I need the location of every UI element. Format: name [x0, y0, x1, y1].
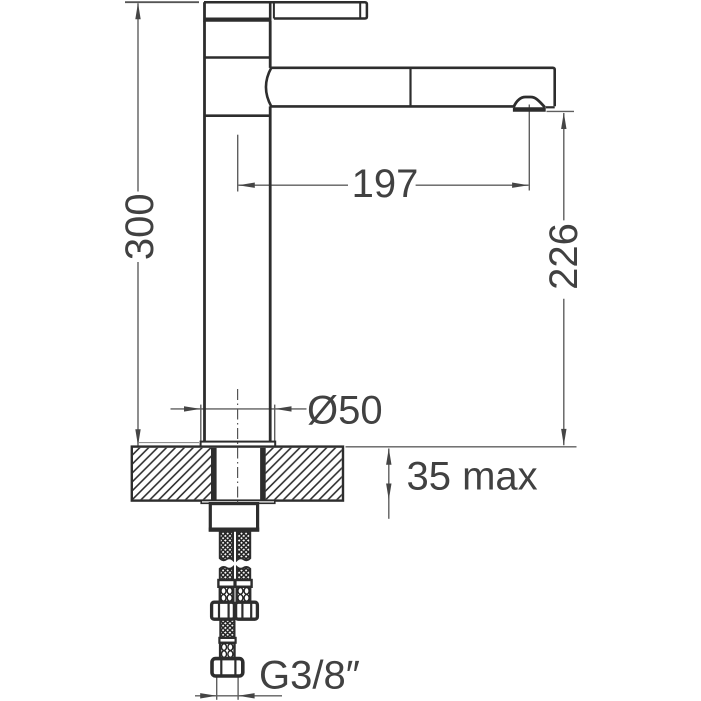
- ext line: 197 right / aerator centerline: [528, 105, 530, 191]
- hose seg2 right (braided): [237, 567, 250, 580]
- lever handle end cap line: [359, 2, 361, 18]
- ext line: Ø50 left: [200, 405, 202, 442]
- countertop outline: [132, 447, 343, 501]
- mounting nut bottom edge: [209, 528, 259, 532]
- spout top and right edge: [271, 68, 554, 107]
- arrow 35max up: [386, 448, 391, 465]
- ferrule bottom: [219, 638, 235, 643]
- arrow 300 down: [135, 429, 140, 446]
- spout collar arc: [266, 68, 271, 107]
- hose seg2 left (braided): [220, 567, 233, 580]
- spout joint line: [409, 69, 411, 106]
- body right edge lower: [269, 106, 272, 442]
- countertop hatch left: [133, 448, 211, 500]
- ext line: G3/8 left: [216, 677, 218, 700]
- countertop hatch right: [266, 448, 342, 500]
- shank wall right: [260, 448, 266, 501]
- dim line G3/8 (horizontal): [195, 695, 282, 697]
- body right edge upper: [269, 21, 272, 68]
- dim line 197 (horizontal): [238, 184, 528, 186]
- flange plate: [201, 442, 276, 448]
- centerline (dash-dot): [237, 389, 239, 504]
- hose seg1 left (braided): [220, 532, 233, 561]
- arrow 226 up: [561, 113, 566, 130]
- svg-text:35 max: 35 max: [407, 455, 538, 499]
- arrow Ø50 left-pointing: [275, 406, 292, 411]
- spout bottom line: [271, 105, 513, 108]
- body left edge: [203, 21, 206, 442]
- shank wall left: [211, 448, 217, 501]
- svg-text:Ø50: Ø50: [307, 388, 383, 432]
- bottom hex nut (G3/8 fitting): [212, 659, 243, 676]
- ext line: Ø50 right: [274, 405, 276, 442]
- ext line: 197 left (body centerline): [237, 135, 239, 192]
- svg-text:226: 226: [542, 223, 586, 290]
- single hose (braided): [220, 620, 234, 638]
- dim line Ø50 (horizontal): [171, 408, 307, 410]
- cartridge cap left edge: [203, 2, 206, 21]
- bottom nut facet lines: [221, 660, 235, 675]
- nut pair facet lines: [219, 604, 251, 619]
- dim line 300 (vertical): [137, 3, 139, 445]
- dim line 35max (vertical): [388, 449, 390, 519]
- ferrule right: [235, 580, 251, 587]
- ext line: countertop top right (226 bottom / 35max top): [346, 446, 577, 448]
- hex nut pair right: [236, 602, 258, 619]
- lever handle top edge: [204, 2, 367, 18]
- body divider line upper: [205, 56, 271, 59]
- body divider line lower: [205, 114, 271, 117]
- ext line: top of faucet (300 dim): [125, 1, 199, 3]
- svg-text:G3/8″: G3/8″: [259, 654, 360, 698]
- corrugation left: [220, 587, 234, 602]
- washer plate: [201, 501, 275, 504]
- arrow 35max down: [386, 484, 391, 501]
- arrow 197 right: [512, 183, 529, 188]
- svg-text:197: 197: [352, 162, 419, 206]
- svg-text:300: 300: [118, 193, 162, 260]
- arrow G3/8 left-pointing: [238, 693, 255, 698]
- corrugation right: [237, 587, 251, 602]
- hex nut pair left: [212, 602, 235, 619]
- ferrule left: [218, 580, 234, 587]
- aerator dome: [514, 97, 545, 107]
- corrugation bottom: [220, 643, 234, 658]
- arrow 226 down: [561, 429, 566, 446]
- aerator bottom bar: [513, 107, 546, 112]
- ext line: 226 top (aerator bottom): [547, 110, 575, 112]
- ext line: G3/8 right: [237, 677, 239, 700]
- ext line: flange top left (300 dim bottom, faint): [139, 442, 199, 444]
- dim line 226 (vertical): [563, 113, 565, 445]
- arrow Ø50 right-pointing: [184, 406, 201, 411]
- hose seg1 right (braided): [237, 532, 250, 561]
- spout bottom right of aerator: [546, 106, 555, 108]
- arrow 300 up: [135, 3, 140, 20]
- arrow 197 left: [238, 183, 255, 188]
- cartridge cap right edge: [269, 2, 272, 21]
- cartridge cap bottom thick band: [203, 18, 271, 22]
- arrow G3/8 right-pointing: [200, 693, 217, 698]
- mounting nut: [210, 504, 257, 531]
- lever handle left end line: [273, 2, 275, 18]
